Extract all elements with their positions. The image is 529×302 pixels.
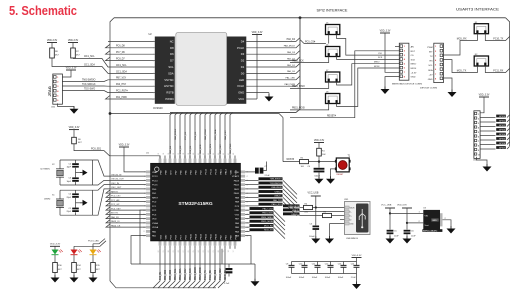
svg-text:VBAT: VBAT	[152, 171, 158, 174]
svg-text:8: 8	[153, 86, 154, 88]
svg-text:AN: AN	[411, 46, 414, 49]
wire	[228, 274, 230, 277]
wire	[507, 124, 510, 127]
svg-text:VDD_3.3V: VDD_3.3V	[66, 67, 77, 69]
svg-text:VCAP2: VCAP2	[232, 175, 240, 178]
svg-text:37: 37	[178, 153, 180, 155]
svg-text:4: 4	[153, 60, 154, 62]
wire TMS-SWDIO	[245, 179, 258, 181]
svg-text:PC7_D2: PC7_D2	[185, 131, 187, 140]
svg-text:18: 18	[228, 250, 230, 252]
svg-text:OSC32_IN: OSC32_IN	[111, 174, 122, 176]
svg-text:GND: GND	[432, 220, 437, 222]
svg-text:RST: RST	[411, 51, 416, 53]
svg-text:GND: GND	[411, 77, 416, 79]
svg-text:MOSI: MOSI	[374, 66, 380, 68]
svg-text:PB3_SD2: PB3_SD2	[165, 269, 167, 280]
ground (device conn)	[448, 90, 457, 98]
svg-text:PC7_D6: PC7_D6	[116, 52, 125, 54]
svg-text:I2C1_SCL: I2C1_SCL	[116, 65, 127, 67]
wire fan	[274, 227, 286, 239]
svg-text:PB10_SCL: PB10_SCL	[175, 268, 177, 280]
wire camera PWDN	[106, 96, 155, 100]
wire	[507, 128, 510, 131]
svg-text:44: 44	[213, 153, 215, 155]
wire bus entry	[170, 113, 173, 159]
wire	[54, 255, 56, 263]
svg-text:SDA: SDA	[168, 71, 174, 75]
wire	[332, 215, 345, 217]
wire bottom loop y=288	[110, 281, 216, 288]
wire fan	[283, 202, 297, 216]
svg-text:VDD_3.3V: VDD_3.3V	[119, 144, 130, 146]
wire USB-VBUS	[245, 188, 258, 190]
wire PB13_SCK	[245, 213, 249, 215]
wire fan	[283, 185, 297, 199]
power VCC_USB bar	[311, 195, 321, 197]
svg-text:PA10: PA10	[234, 192, 240, 195]
power VDD-3.3V (caps)	[352, 255, 362, 258]
wire	[315, 208, 317, 226]
wire J8 to MOSI	[337, 68, 400, 107]
wire	[54, 273, 56, 278]
capacitor C1	[72, 208, 79, 210]
jumper J8	[326, 92, 340, 104]
ground (EMI)	[447, 226, 456, 234]
svg-text:PC6_D3: PC6_D3	[180, 145, 182, 154]
svg-text:LED: LED	[239, 78, 244, 82]
wire cap rail top	[292, 261, 357, 263]
svg-text:D0: D0	[241, 71, 245, 75]
wire MCU left	[106, 211, 146, 214]
wire	[300, 207, 304, 209]
svg-text:10uF: 10uF	[411, 236, 416, 238]
svg-text:PC12_SD2: PC12_SD2	[220, 268, 222, 280]
svg-text:RX: RX	[430, 61, 434, 63]
svg-text:46: 46	[223, 153, 225, 155]
wire PB13_SCK	[290, 57, 329, 63]
wire MCU bottom	[193, 249, 200, 288]
ground (reset C4)	[315, 176, 324, 184]
wire TCK-SWCLK	[62, 85, 154, 87]
svg-text:PB5_SD2: PB5_SD2	[170, 269, 172, 280]
resistor R8 4K7	[50, 48, 55, 58]
svg-text:PC13_LED: PC13_LED	[88, 241, 99, 243]
wire	[356, 274, 358, 285]
svg-text:VDD-3.3V: VDD-3.3V	[314, 140, 325, 142]
wire NRST	[283, 161, 300, 163]
wire camera PA2_D2	[246, 57, 300, 61]
svg-text:32.768kHz: 32.768kHz	[40, 169, 50, 171]
svg-text:36: 36	[173, 153, 175, 155]
power VDD-3.3V bar	[402, 207, 412, 209]
wire USB-D-	[245, 192, 258, 194]
connector CN3 device conn	[434, 43, 444, 82]
svg-text:I2C1_SDA: I2C1_SDA	[84, 63, 95, 66]
svg-text:100nF: 100nF	[309, 236, 315, 238]
svg-text:PA1_D1: PA1_D1	[287, 64, 296, 67]
svg-text:PA0_B1: PA0_B1	[159, 271, 162, 280]
wire MCU bottom	[198, 249, 205, 288]
wire	[92, 244, 94, 250]
svg-text:MCU_TX: MCU_TX	[264, 230, 273, 232]
wire	[72, 43, 74, 49]
wire	[389, 208, 391, 230]
wire fan	[283, 189, 297, 203]
svg-text:D1: D1	[241, 65, 245, 69]
svg-text:SDIO_D0: SDIO_D0	[225, 269, 227, 280]
svg-text:GPIO3: GPIO3	[499, 129, 506, 131]
svg-text:MCU_RX: MCU_RX	[457, 39, 467, 41]
wire	[73, 255, 75, 263]
wire	[356, 258, 358, 262]
jumper J5	[326, 23, 340, 35]
labels USB nets	[283, 204, 300, 207]
svg-text:CS: CS	[411, 55, 415, 57]
svg-text:MISO: MISO	[411, 64, 417, 66]
svg-text:VSS: VSS	[160, 234, 162, 239]
svg-text:USB-D+: USB-D+	[291, 214, 299, 216]
wire MCU_TX	[245, 230, 249, 232]
svg-text:USB-VBUS: USB-VBUS	[271, 187, 282, 189]
ground (C5)	[386, 236, 395, 244]
wire	[318, 172, 320, 178]
jumper K1	[474, 22, 488, 34]
wire GPIO1	[480, 121, 495, 123]
capacitor C11 100nF	[317, 262, 319, 266]
wire MCU_RX	[443, 34, 477, 55]
wire GND	[385, 77, 399, 89]
svg-text:D4: D4	[241, 39, 245, 43]
wire +3.3V	[385, 33, 399, 72]
svg-text:D3: D3	[241, 52, 245, 56]
wire	[62, 70, 71, 77]
svg-text:100nF: 100nF	[286, 277, 292, 279]
svg-text:+3.3V: +3.3V	[411, 72, 417, 74]
wire	[300, 215, 323, 217]
power VDD-3.3V (mikroBUS)	[380, 30, 391, 33]
wire top bus horizontal	[114, 17, 506, 19]
junction node at (110,113.5)	[109, 112, 112, 115]
svg-text:PB15_MOSI: PB15_MOSI	[292, 108, 305, 110]
wire PC8	[74, 144, 160, 159]
wire GPIO5	[480, 139, 495, 141]
svg-text:C9: C9	[286, 264, 288, 266]
power VDD-3.3V (MCU)	[119, 144, 130, 147]
wire PB14_MISO	[245, 218, 249, 220]
svg-text:41: 41	[198, 153, 200, 155]
resistor R7 4K7	[71, 48, 76, 58]
push button T1 (red)	[335, 158, 351, 172]
svg-text:47: 47	[228, 153, 230, 155]
ground (X2)	[80, 170, 88, 176]
wire fan	[274, 210, 286, 222]
svg-text:VDD: VDD	[234, 210, 239, 212]
wire	[263, 162, 266, 171]
svg-text:PA8_MCLK: PA8_MCLK	[284, 45, 296, 48]
wire J6 to SCK	[337, 57, 400, 60]
wire	[406, 234, 408, 238]
svg-text:MCU_TX: MCU_TX	[457, 71, 467, 73]
wire	[228, 264, 230, 268]
svg-text:PC2_RST#: PC2_RST#	[116, 91, 128, 93]
resistor R14	[72, 263, 77, 273]
svg-text:100nF: 100nF	[338, 277, 344, 279]
svg-text:I2C1_SDA: I2C1_SDA	[214, 129, 217, 140]
wire GPIO7	[480, 148, 495, 150]
svg-text:2.2uF: 2.2uF	[351, 277, 357, 279]
svg-text:PB12_CS#: PB12_CS#	[263, 208, 274, 210]
wire MCU bottom	[208, 249, 215, 288]
wire PB15_MOSI	[245, 222, 249, 224]
svg-text:USB-D-: USB-D-	[275, 191, 282, 193]
connector CN5 mikroBUS	[399, 43, 409, 80]
wire	[54, 246, 56, 249]
wire TDO-SWO	[62, 91, 154, 93]
capacitor C13 100nF	[343, 262, 345, 266]
svg-text:3: 3	[153, 54, 154, 56]
wire MCU bottom	[168, 249, 175, 288]
svg-text:PA1_LED: PA1_LED	[286, 77, 296, 80]
camera lens/screen area	[176, 32, 227, 105]
wire	[315, 230, 317, 239]
svg-text:VDD: VDD	[165, 234, 167, 239]
svg-text:17: 17	[233, 250, 235, 252]
svg-text:2.2uF: 2.2uF	[265, 175, 271, 177]
wire fan	[283, 193, 297, 207]
svg-text:GPIO4: GPIO4	[499, 134, 506, 136]
svg-text:PC8_SD1: PC8_SD1	[91, 148, 102, 150]
jumper J6	[326, 45, 340, 57]
svg-text:PC11_RX: PC11_RX	[493, 71, 504, 73]
svg-text:VBUS: VBUS	[350, 207, 356, 209]
wire ID stub	[340, 219, 345, 221]
wire camera PC6_D8	[106, 44, 155, 48]
svg-text:MISO: MISO	[374, 62, 380, 64]
svg-text:35: 35	[168, 153, 170, 155]
svg-text:PC12: PC12	[205, 168, 207, 174]
svg-text:22pF: 22pF	[66, 197, 71, 199]
wire MCU left	[106, 190, 146, 193]
svg-text:D+: D+	[350, 215, 352, 217]
svg-text:10: 10	[152, 99, 154, 101]
wire MCU bottom	[183, 249, 190, 288]
capacitor C12 100nF	[330, 262, 332, 266]
capacitor C14 2.2uF	[356, 262, 358, 266]
svg-text:C13: C13	[338, 264, 342, 266]
svg-text:PB11: PB11	[210, 233, 212, 239]
svg-text:PB14_MISO: PB14_MISO	[195, 267, 197, 280]
svg-text:PA4_HSY: PA4_HSY	[224, 130, 227, 140]
svg-text:40: 40	[193, 153, 195, 155]
wire OSC_OUT	[92, 189, 145, 215]
wire	[443, 220, 452, 229]
ground (camera)	[265, 94, 274, 102]
svg-text:10uF: 10uF	[394, 236, 399, 238]
wire fan	[283, 197, 297, 211]
ground (X1)	[80, 200, 88, 206]
wire bus entry	[205, 113, 208, 159]
wire bus entry	[230, 113, 233, 159]
svg-text:16MHz: 16MHz	[44, 199, 50, 201]
capacitor C10 100nF	[304, 262, 306, 266]
svg-text:PA8_XCLK: PA8_XCLK	[204, 129, 207, 140]
wire PB12_CS#	[245, 209, 249, 211]
svg-text:RESET#: RESET#	[327, 116, 337, 118]
wire PC10_TX	[485, 34, 509, 41]
wire	[507, 119, 510, 122]
svg-text:PC13: PC13	[152, 176, 158, 178]
wire	[245, 171, 255, 173]
wire	[507, 146, 510, 149]
wire MCU left	[106, 203, 146, 206]
svg-text:VCC_USB: VCC_USB	[381, 204, 392, 206]
svg-text:PA1_LED: PA1_LED	[199, 144, 202, 154]
crystal X1 16MHz circuit	[44, 190, 92, 215]
wire MCU bottom	[178, 249, 185, 288]
wire bus entry	[190, 113, 193, 159]
svg-text:2: 2	[153, 48, 154, 50]
wire	[58, 103, 74, 108]
svg-text:PC11: PC11	[210, 168, 212, 174]
svg-text:C10: C10	[299, 264, 303, 266]
wire camera PA1_LED	[246, 76, 300, 80]
svg-text:TCK-SWCLK: TCK-SWCLK	[82, 84, 96, 86]
svg-text:OSC_IN: OSC_IN	[111, 183, 119, 185]
wire	[480, 97, 484, 113]
ground (USB C)	[311, 236, 320, 244]
wire	[76, 202, 82, 204]
svg-text:STM32F415RG: STM32F415RG	[178, 201, 212, 207]
svg-text:VSS: VSS	[235, 214, 240, 216]
wire camera PA1_D1	[246, 63, 300, 67]
wire bus entry	[210, 113, 213, 159]
wire	[51, 43, 53, 49]
wire	[318, 156, 320, 162]
svg-text:PB11_SDA: PB11_SDA	[179, 268, 182, 280]
wire I2C1_SCL	[73, 58, 155, 67]
svg-text:VCC: VCC	[239, 97, 245, 101]
svg-text:DEVICE CONN: DEVICE CONN	[420, 88, 437, 90]
svg-text:39: 39	[188, 153, 190, 155]
wire	[74, 241, 106, 247]
svg-text:PB10: PB10	[215, 233, 217, 239]
svg-text:PB13_SCK: PB13_SCK	[190, 268, 192, 280]
wire RESET#	[290, 51, 399, 118]
svg-text:PA1_PWD: PA1_PWD	[229, 143, 232, 154]
svg-text:GPIO2: GPIO2	[499, 125, 506, 127]
wire USB-D+	[245, 196, 258, 198]
wire MCU bottom	[173, 249, 180, 288]
svg-text:USART3 INTERFACE: USART3 INTERFACE	[456, 8, 500, 12]
wire	[507, 133, 510, 136]
svg-text:VDD-3.3V: VDD-3.3V	[397, 204, 407, 206]
svg-text:+5V: +5V	[429, 74, 433, 76]
wire bus x300	[296, 18, 300, 113]
svg-text:D6: D6	[170, 52, 174, 56]
svg-text:PA9_TX1: PA9_TX1	[273, 199, 283, 202]
svg-text:PB12: PB12	[205, 233, 207, 239]
wire	[507, 115, 510, 118]
wire	[140, 210, 146, 264]
EMI filter U3 EMIF02-USB	[422, 208, 442, 233]
svg-text:HSYNC: HSYNC	[164, 84, 173, 88]
wire	[331, 169, 337, 179]
wire	[254, 264, 256, 281]
svg-text:TMS-SWDIO: TMS-SWDIO	[82, 79, 96, 81]
svg-text:NRST: NRST	[152, 197, 159, 199]
wire TCK-SWCLK	[245, 184, 258, 186]
power VDD-3.3V (camera)	[252, 32, 263, 35]
wire cap rail bottom	[292, 273, 357, 275]
svg-text:PA11: PA11	[234, 188, 240, 191]
wire	[92, 255, 94, 263]
wire	[406, 208, 408, 230]
ground (mikroBUS)	[381, 87, 390, 95]
wire PA10_RX1	[245, 205, 258, 207]
svg-text:33: 33	[158, 153, 160, 155]
power VDD-3.3V (LED)	[50, 244, 61, 247]
power VDD-3.3V (JTAG)	[66, 67, 77, 70]
wire J5 to CS	[337, 35, 400, 56]
ground (GPIO)	[483, 164, 492, 172]
wire bus entry	[185, 113, 188, 159]
svg-text:RSTB: RSTB	[166, 91, 173, 95]
svg-text:USB-D+: USB-D+	[274, 196, 282, 198]
svg-text:TCK-SWCLK: TCK-SWCLK	[270, 183, 283, 185]
wire PC11_RX	[485, 66, 509, 73]
wire	[73, 130, 75, 138]
svg-text:NC: NC	[170, 39, 174, 43]
svg-text:43: 43	[208, 153, 210, 155]
wire	[507, 142, 510, 145]
svg-text:OV2640: OV2640	[153, 106, 163, 110]
svg-text:MOSI: MOSI	[411, 68, 417, 70]
svg-text:I2C1_SCL: I2C1_SCL	[210, 143, 212, 154]
wire MCU left	[106, 215, 146, 218]
ground (reset button)	[326, 176, 335, 184]
svg-text:RESET: RESET	[337, 174, 345, 176]
ground (LD2)	[70, 275, 79, 283]
svg-text:PC10_TX: PC10_TX	[205, 270, 207, 280]
wire camera PC8_D7	[106, 57, 155, 61]
wire GND	[443, 78, 452, 92]
svg-text:10pF: 10pF	[66, 181, 71, 183]
resistor R2 100	[300, 160, 309, 164]
wire camera PA0_D0	[246, 70, 300, 74]
svg-text:100nF: 100nF	[314, 175, 320, 177]
svg-text:PB13: PB13	[200, 233, 202, 239]
wire MCU left	[106, 207, 146, 210]
svg-text:VDDA: VDDA	[152, 226, 159, 229]
wire bus entry	[215, 113, 218, 159]
wire fan	[274, 214, 286, 226]
wire bus entry	[220, 113, 223, 159]
wire fan	[274, 223, 286, 235]
svg-text:10pF: 10pF	[66, 167, 71, 169]
svg-text:PB14_MISO: PB14_MISO	[261, 217, 273, 219]
svg-text:GPIO6: GPIO6	[499, 143, 506, 145]
svg-text:VCC_USB: VCC_USB	[308, 193, 319, 195]
wire OSC32_IN	[92, 160, 145, 176]
svg-text:VDD: VDD	[234, 172, 239, 174]
wire PB14_MISO	[290, 82, 329, 88]
svg-text:1: 1	[153, 41, 154, 43]
svg-text:22pF: 22pF	[66, 211, 71, 213]
wire	[313, 207, 345, 209]
svg-text:15: 15	[143, 231, 145, 233]
camera right pin bank	[227, 37, 247, 104]
